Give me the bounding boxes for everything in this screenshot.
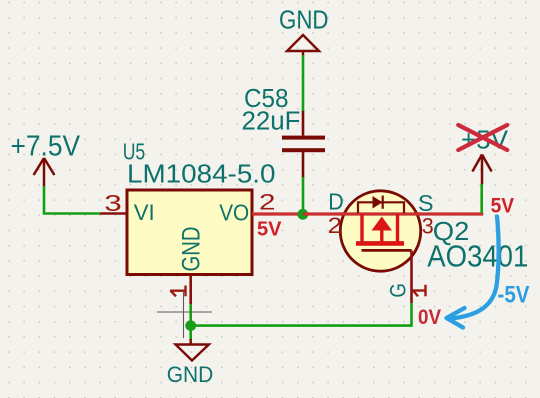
junction node GND: [185, 320, 196, 331]
regulator U5 LM1084-5.0: [100, 138, 303, 304]
svg-text:GND: GND: [178, 227, 206, 272]
svg-text:-5V: -5V: [498, 282, 530, 309]
svg-text:3: 3: [104, 190, 122, 216]
anchor crosshair: [157, 291, 212, 338]
svg-text:0V: 0V: [418, 306, 441, 329]
pin G: [410, 250, 413, 303]
body: [127, 190, 252, 275]
power symbol GND (top): [279, 4, 329, 56]
internal structure: [356, 214, 404, 243]
D-S rail inside: [340, 212, 421, 215]
svg-text:5V: 5V: [491, 194, 514, 217]
junction node 5V rail: [297, 209, 308, 220]
annotation cross-out X over +5V: [458, 125, 507, 150]
svg-text:5V: 5V: [257, 219, 282, 241]
gate bar: [362, 249, 412, 252]
transistor Q2 AO3401: [328, 188, 529, 303]
wire +7.5V to U5 pin 3: [44, 186, 100, 214]
wire C58 to junction: [302, 177, 305, 214]
svg-text:VO: VO: [219, 200, 249, 226]
annotation blue arrow: [452, 217, 499, 319]
pin 3 (VI): [100, 212, 127, 215]
svg-text:2: 2: [328, 213, 343, 238]
svg-text:G: G: [386, 283, 411, 298]
body diode: [358, 196, 404, 214]
svg-text:VI: VI: [134, 200, 155, 225]
pin 2 (VO): [252, 212, 303, 215]
svg-text:D: D: [328, 188, 344, 214]
svg-text:GND: GND: [279, 4, 329, 34]
svg-text:2: 2: [259, 190, 276, 215]
power symbol GND (bottom): [167, 339, 214, 387]
wire +5V to S corner: [480, 184, 483, 213]
pin 1 (GND): [189, 275, 192, 305]
svg-text:LM1084-5.0: LM1084-5.0: [127, 158, 276, 188]
svg-text:+7.5V: +7.5V: [11, 131, 81, 163]
svg-text:S: S: [418, 190, 434, 216]
svg-text:22uF: 22uF: [242, 108, 301, 136]
wire GND to C58: [302, 55, 305, 112]
power symbol +5V (crossed out): [461, 124, 509, 184]
capacitor C58 22uF: [242, 85, 326, 178]
wire U5 pin1 down to bottom junction: [189, 304, 192, 340]
wire 5V rail (VO to S corner): [303, 212, 483, 215]
wire Q2 gate to GND rail: [410, 303, 413, 327]
svg-text:GND: GND: [167, 362, 214, 387]
annotation blue arrowhead: [447, 308, 465, 328]
wire GND junction to Q2 gate: [191, 324, 412, 327]
svg-text:AO3401: AO3401: [427, 240, 528, 274]
power symbol +7.5V: [11, 131, 81, 187]
